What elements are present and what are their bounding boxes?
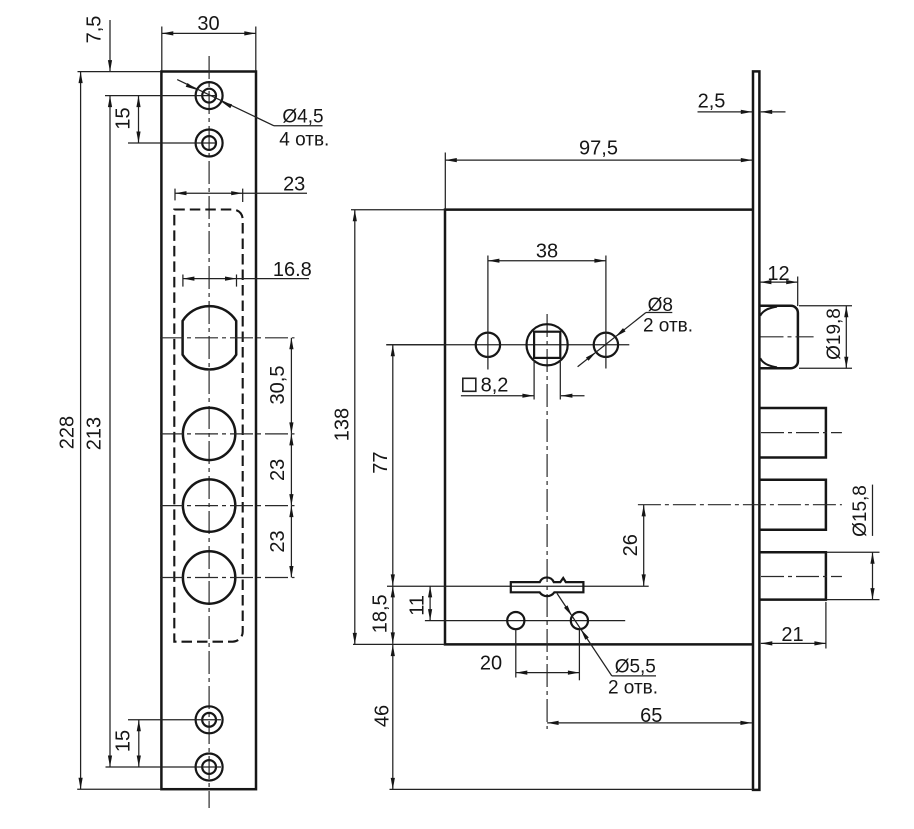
svg-text:65: 65 (640, 705, 662, 727)
label 2 otv top (643, 316, 693, 337)
svg-text:12: 12 (767, 263, 789, 285)
dimension 21 (deadbolt protrusion) (761, 602, 826, 649)
deadbolt 3 (759, 552, 826, 599)
screw hole top 2 (d4.5) (196, 130, 223, 157)
svg-text:138: 138 (332, 408, 354, 441)
dimension 15 (top holes) (113, 96, 141, 143)
circle 2 centerline (160, 433, 295, 435)
circle 1 centerline (160, 337, 295, 339)
screw hole top 1 (d4.5) (196, 82, 223, 109)
svg-text:16.8: 16.8 (273, 259, 312, 281)
svg-text:97,5: 97,5 (579, 138, 618, 160)
faceplate front view outline (161, 72, 256, 790)
dimension 11 (keyhole to fixing holes) (407, 586, 433, 621)
dimension 12 (latch width) (760, 263, 798, 306)
svg-text:Ø8: Ø8 (648, 295, 673, 316)
dimension 30,5 (circle 1-2 spacing) (267, 338, 293, 434)
dimension 97,5 (body depth) (445, 138, 752, 210)
svg-text:15: 15 (113, 107, 135, 129)
svg-text:20: 20 (480, 653, 502, 675)
hole top 1 centerline (105, 95, 217, 97)
label d5,5 (615, 656, 656, 677)
svg-text:46: 46 (372, 705, 394, 727)
svg-text:4 отв.: 4 отв. (279, 130, 329, 151)
svg-text:23: 23 (267, 530, 289, 552)
svg-text:Ø4,5: Ø4,5 (282, 107, 323, 128)
dimension 20 (fixing holes spacing) (480, 630, 580, 680)
deadbolt 2 (759, 480, 826, 530)
dimension 213 (hole to hole) (84, 96, 113, 767)
hole d8 left centerline (487, 256, 489, 370)
leader d8 2 holes (578, 313, 673, 367)
bolt hole circle 4 (183, 551, 235, 603)
svg-text:77: 77 (370, 451, 392, 473)
dimension 15 (bottom holes) (113, 720, 141, 767)
svg-text:2,5: 2,5 (698, 91, 726, 113)
lock body outline (445, 210, 753, 645)
deadbolt 2 centerline (638, 504, 842, 506)
spindle hub circle (527, 324, 568, 365)
dimension 23 (circle 3-4 spacing) (267, 506, 293, 578)
dimension 16.8 (flat width) (183, 259, 312, 286)
latch bolt (d19.8) (759, 306, 798, 368)
dimension 18,5 (keyhole to bottom) (370, 586, 395, 644)
svg-text:23: 23 (283, 174, 305, 196)
svg-text:8,2: 8,2 (481, 375, 509, 397)
svg-text:213: 213 (84, 417, 106, 450)
hole d8 right (594, 333, 618, 357)
svg-text:7,5: 7,5 (84, 16, 106, 44)
leader line d4,5 4 holes (177, 80, 322, 126)
dimension d19,8 (latch diameter) (799, 306, 852, 368)
deadbolt 3 centerline (761, 576, 842, 578)
screw hole bottom 1 (d4.5) (196, 706, 223, 733)
fixing holes centerline (425, 620, 625, 622)
svg-text:Ø19,8: Ø19,8 (824, 308, 845, 360)
faceplate strip (side view) (753, 71, 759, 790)
leader d5,5 2 holes (557, 593, 656, 676)
keyhole (key slot) (511, 577, 584, 596)
fixing hole d5,5 right (571, 612, 588, 629)
svg-text:21: 21 (781, 624, 803, 646)
dimension 23 (circle 2-3 spacing) (267, 434, 293, 506)
dimension 65 (keyhole to strip) (547, 705, 752, 727)
fixing hole d5,5 left (507, 612, 524, 629)
dimension 38 (d8 holes spacing) (488, 241, 606, 263)
faceplate vertical centerline (208, 56, 210, 808)
svg-text:11: 11 (407, 595, 429, 616)
bolt hole circle 1 (16.8 flats) (183, 306, 237, 369)
spindle square 8.2 (534, 332, 560, 358)
keyhole centerline horizontal (387, 585, 649, 587)
svg-text:30: 30 (197, 13, 219, 35)
label 4 otv (279, 130, 329, 151)
hub holes centerline (386, 344, 629, 346)
label 2 otv bottom (608, 677, 658, 698)
svg-text:26: 26 (620, 534, 642, 556)
svg-text:2 отв.: 2 отв. (608, 677, 658, 698)
latch bolt centerline (761, 336, 814, 338)
label d4,5 (282, 107, 323, 128)
dimension 46 (bottom to strip end) (372, 645, 754, 790)
dimension 2,5 (strip thickness) (698, 91, 786, 115)
dimension 77 (top to keyhole) (370, 345, 445, 586)
bolt hole circle 3 (183, 479, 235, 531)
hole d8 left (476, 333, 500, 357)
hub vertical centerline (546, 314, 548, 729)
dimension d15,8 (deadbolt diameter) (827, 485, 880, 600)
hole bottom 2 centerline (106, 766, 222, 768)
dashed pocket outline (hidden recess) (174, 210, 242, 642)
svg-text:2 отв.: 2 отв. (643, 316, 693, 337)
dimension 138 (body height) (332, 210, 446, 645)
svg-text:18,5: 18,5 (370, 594, 392, 633)
dimension 228 (overall height) (57, 72, 162, 790)
dimension 23 (pocket width) (175, 174, 307, 203)
hole top 2 centerline (128, 142, 217, 144)
label d8 (648, 295, 673, 316)
dimension 7,5 (top edge to hole) (84, 16, 113, 72)
svg-text:23: 23 (267, 459, 289, 481)
dimension 30 (plate width) (162, 13, 256, 71)
screw hole bottom 2 (d4.5) (196, 754, 223, 781)
deadbolt 1 (759, 408, 826, 458)
hole d8 right centerline (605, 256, 607, 369)
svg-text:228: 228 (57, 416, 79, 449)
hole bottom 1 centerline (128, 719, 221, 721)
bolt hole circle 2 (183, 408, 235, 460)
svg-text:15: 15 (113, 730, 135, 752)
svg-text:30,5: 30,5 (267, 366, 289, 405)
svg-text:Ø15,8: Ø15,8 (850, 485, 871, 537)
deadbolt 1 centerline (761, 432, 842, 434)
svg-text:38: 38 (536, 241, 558, 263)
circle 3 centerline (160, 505, 295, 507)
svg-text:Ø5,5: Ø5,5 (615, 656, 656, 677)
dimension 26 (keyhole to deadbolt) (620, 505, 646, 586)
circle 4 centerline (160, 577, 295, 579)
dimension square 8,2 (461, 360, 585, 400)
